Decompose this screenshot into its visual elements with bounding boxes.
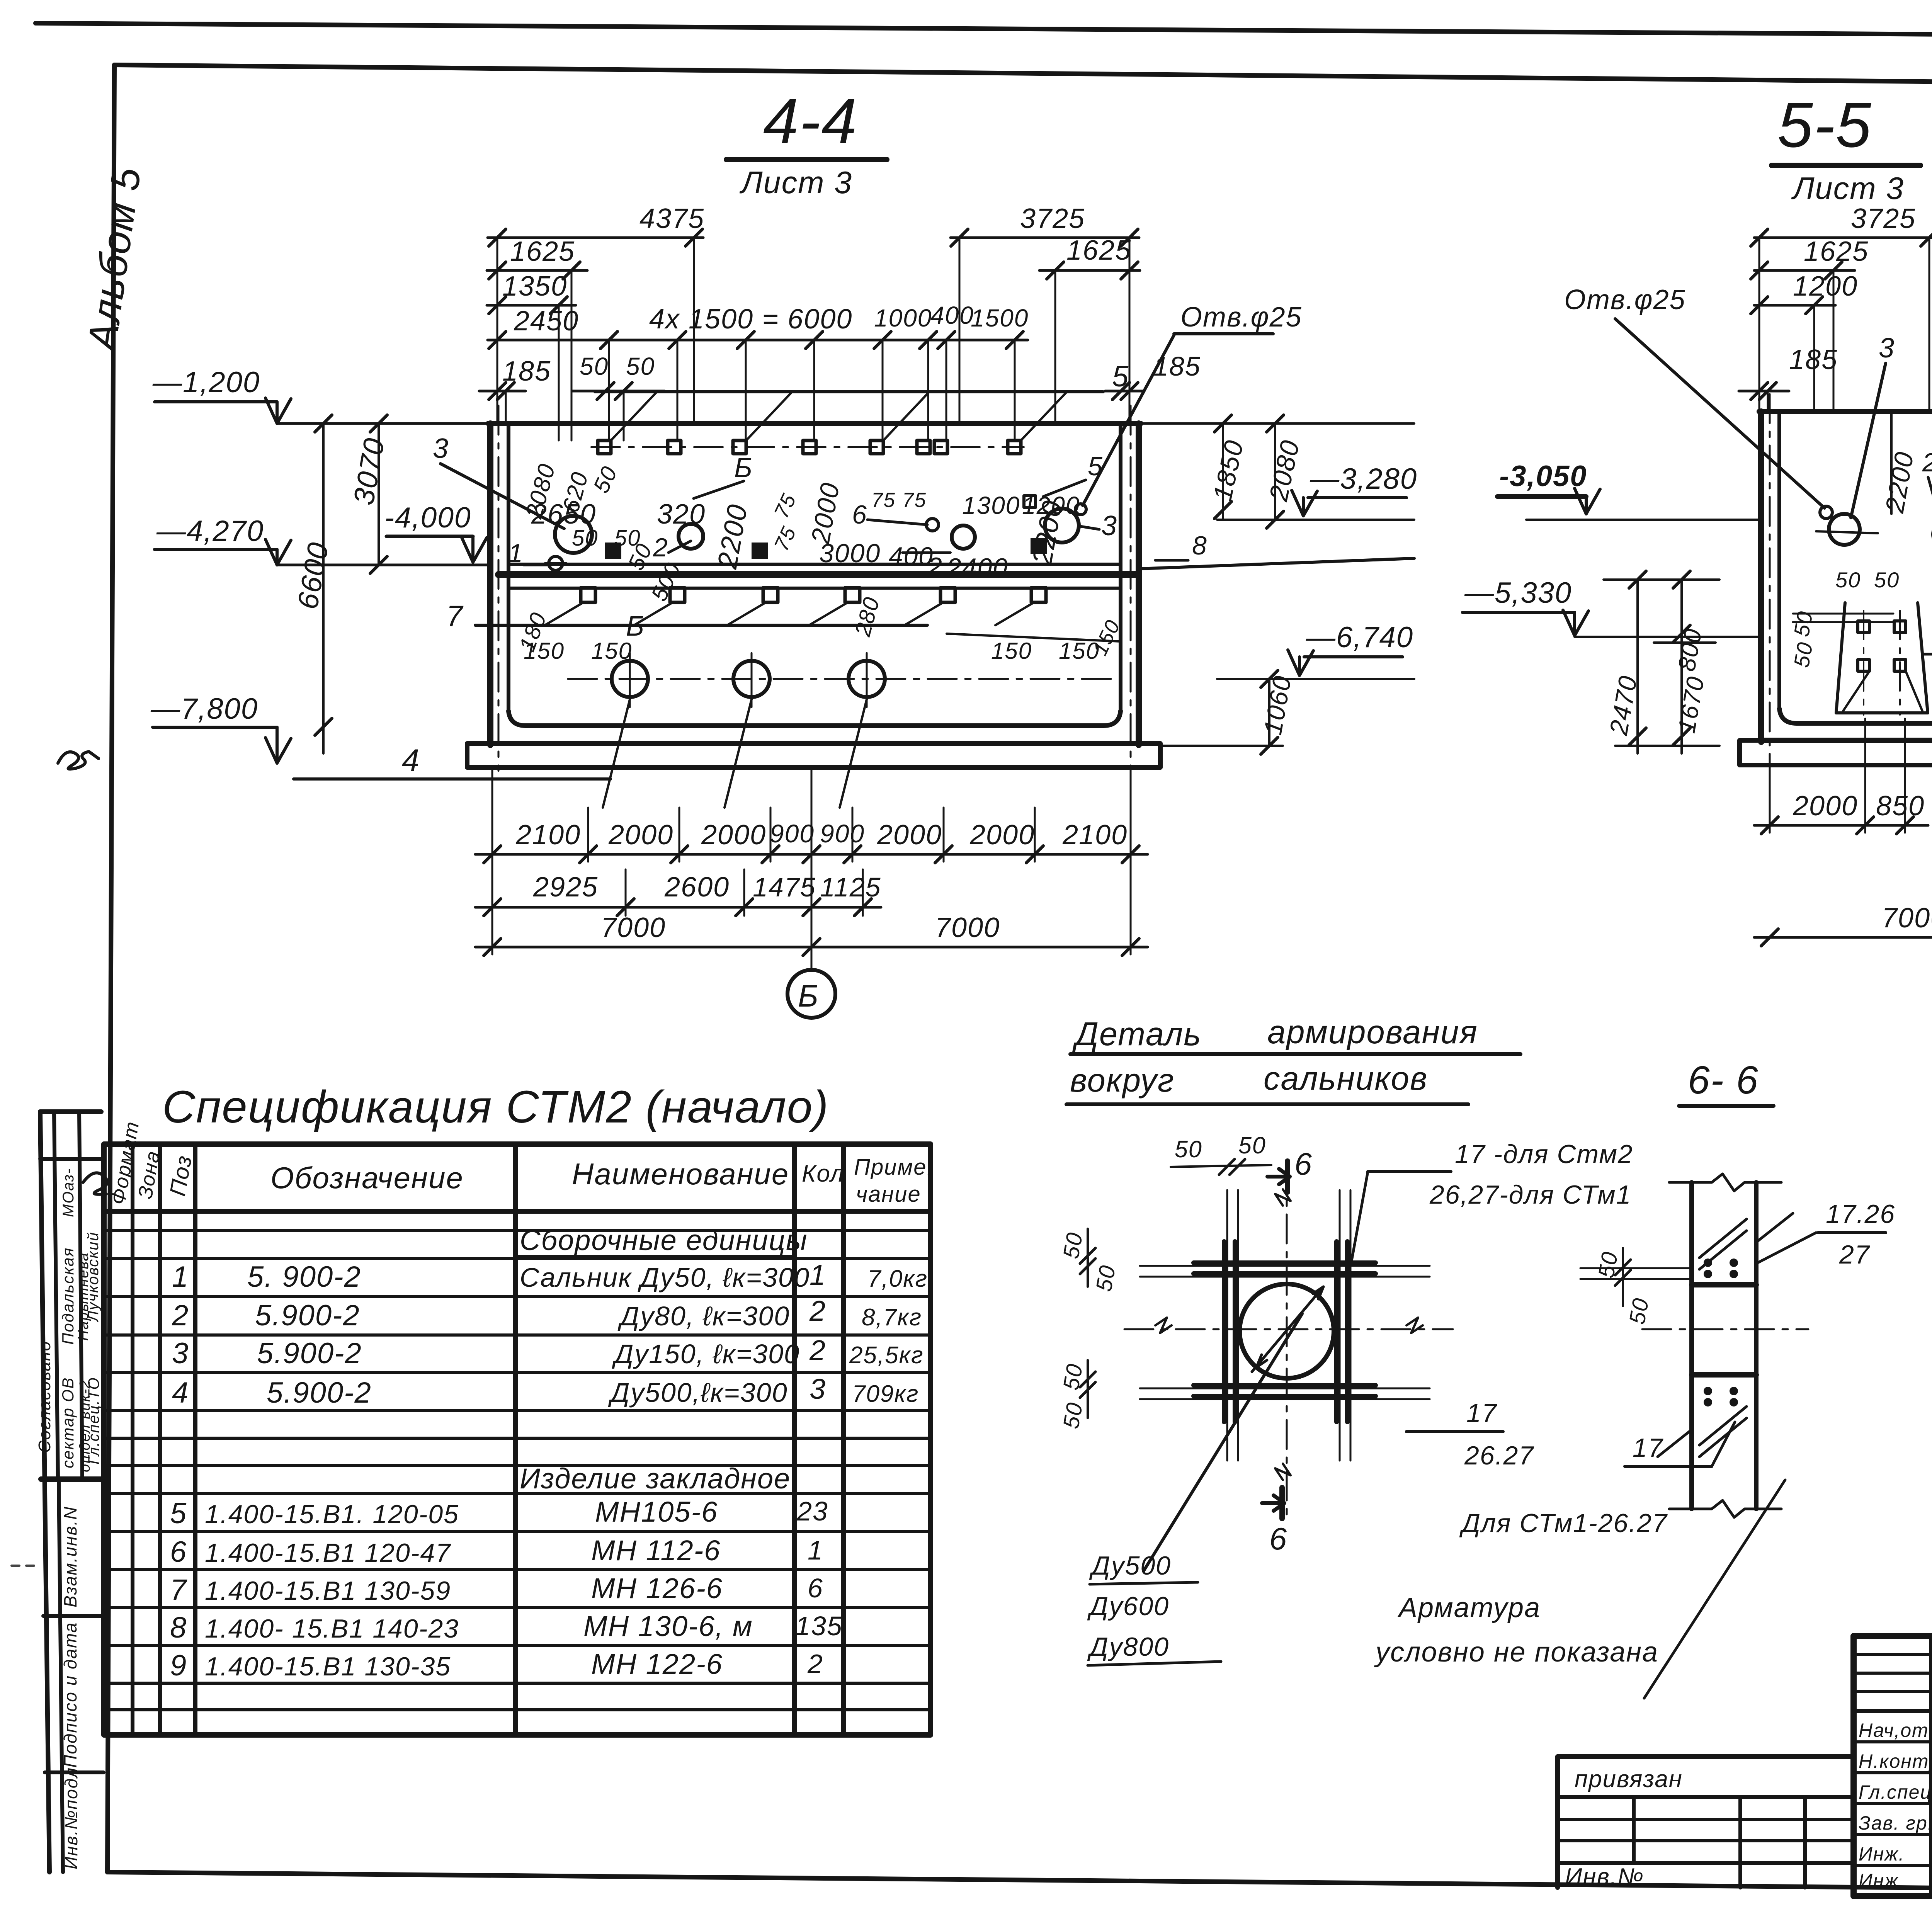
5-5 item leaders — [1851, 333, 1932, 556]
svg-text:50: 50 — [1874, 568, 1900, 592]
svg-text:50: 50 — [588, 462, 622, 497]
4-4 hole label Отв.ф25 right — [1083, 302, 1302, 505]
svg-text:3: 3 — [1879, 333, 1895, 364]
svg-text:чание: чание — [856, 1182, 921, 1207]
svg-text:Отв.φ25: Отв.φ25 — [1180, 302, 1302, 333]
svg-text:-4,000: -4,000 — [384, 501, 471, 534]
svg-text:2: 2 — [172, 1299, 189, 1332]
svg-text:1.400-15.В1 120-47: 1.400-15.В1 120-47 — [205, 1538, 451, 1568]
svg-text:2080: 2080 — [1264, 437, 1305, 504]
section 6-6 title — [1679, 1058, 1774, 1106]
5-5 bottom dims 7000 7000 — [1754, 769, 1932, 978]
svg-text:2: 2 — [807, 1649, 823, 1679]
svg-text:2400: 2400 — [946, 553, 1008, 582]
svg-text:1300: 1300 — [962, 492, 1020, 519]
svg-text:2450: 2450 — [514, 306, 579, 337]
4-4 gallery floor slab — [498, 564, 1139, 588]
svg-text:7: 7 — [446, 600, 464, 633]
stray pen marks bottom — [12, 1566, 1406, 1932]
5-5 dimension row 1625 /1625 — [1751, 235, 1932, 279]
svg-text:1.400-15.В1 130-35: 1.400-15.В1 130-35 — [205, 1652, 451, 1681]
svg-text:50: 50 — [1058, 1400, 1088, 1430]
armature note — [1374, 1480, 1785, 1698]
title block outer — [1854, 1636, 1932, 1896]
svg-text:50: 50 — [1594, 1249, 1623, 1280]
svg-text:1.400-15.В1. 120-05: 1.400-15.В1. 120-05 — [205, 1500, 459, 1529]
svg-text:50: 50 — [1789, 640, 1818, 669]
4-4 left level mark -1,200 — [152, 366, 488, 423]
svg-text:3: 3 — [172, 1337, 189, 1370]
svg-text:МН 122-6: МН 122-6 — [591, 1648, 723, 1680]
svg-text:армирования: армирования — [1267, 1014, 1478, 1051]
svg-text:1: 1 — [810, 1259, 826, 1291]
svg-text:3: 3 — [1101, 510, 1117, 541]
5-5 left level -3,050 — [1497, 460, 1761, 520]
svg-text:1: 1 — [172, 1260, 189, 1293]
svg-text:26.27: 26.27 — [1464, 1441, 1534, 1470]
svg-text:Нач,отд: Нач,отд — [1859, 1719, 1932, 1741]
svg-text:3000: 3000 — [819, 539, 881, 568]
svg-text:17.26: 17.26 — [1826, 1199, 1895, 1229]
svg-text:Подальская: Подальская — [59, 1247, 77, 1345]
left detail 50 50 dims — [1058, 1132, 1271, 1430]
svg-text:1.400-15.В1 130-59: 1.400-15.В1 130-59 — [205, 1576, 451, 1605]
5-5 dimension row 185 / 185 — [1739, 344, 1932, 400]
svg-text:МН 112-6: МН 112-6 — [591, 1534, 721, 1566]
svg-text:Б: Б — [734, 452, 753, 483]
4-4 dimension row 185 and 50 50 — [479, 351, 1201, 400]
spec table grid — [104, 1144, 930, 1735]
5-5 dimension 6x1500=9000 / 1000 — [1924, 621, 1932, 663]
svg-text:50: 50 — [1058, 1230, 1088, 1260]
5-5 top extension verticals — [1759, 238, 1932, 502]
svg-text:2: 2 — [809, 1334, 826, 1366]
4-4 section cut line 4 — [294, 743, 611, 779]
svg-text:50: 50 — [1238, 1132, 1266, 1158]
signature squiggle left margin — [58, 752, 99, 769]
4-4 reference circle Б — [787, 970, 835, 1018]
svg-text:Приме.: Приме. — [854, 1155, 934, 1180]
svg-text:50: 50 — [626, 352, 655, 380]
svg-text:3725: 3725 — [1851, 203, 1916, 234]
svg-text:2000: 2000 — [608, 820, 673, 850]
svg-text:3: 3 — [433, 433, 449, 464]
5-5 left dims 2470 1670 800 — [1604, 571, 1719, 753]
section 5-5 title — [1772, 89, 1920, 206]
5-5 inner dims 2200 1850 2200 700 2400 1770 200 2080 2800 — [1880, 374, 1932, 581]
svg-text:1850: 1850 — [1207, 437, 1249, 504]
5-5 bottom dims 2000 850 — [1754, 719, 1928, 834]
4-4 vertical dims 3070 / 6600 — [291, 415, 391, 753]
svg-text:2: 2 — [653, 533, 668, 562]
svg-text:6: 6 — [852, 500, 867, 529]
svg-text:900: 900 — [770, 819, 815, 848]
svg-text:Инж: Инж — [1859, 1870, 1899, 1891]
svg-text:Подписо и дата: Подписо и дата — [60, 1622, 80, 1768]
note label 17.26/27 left of it — [0, 0, 0, 0]
svg-text:6600: 6600 — [291, 539, 335, 612]
4-4 top dimension row 4375 / 3725 — [488, 203, 1139, 246]
svg-text:Обозначение: Обозначение — [270, 1161, 464, 1195]
svg-text:6: 6 — [1294, 1147, 1313, 1182]
svg-text:185: 185 — [502, 356, 551, 387]
svg-text:2: 2 — [809, 1295, 826, 1327]
svg-text:5-5: 5-5 — [1777, 89, 1872, 160]
5-5 tank outline walls — [1759, 394, 1932, 769]
svg-text:2000: 2000 — [877, 820, 942, 850]
4-4 right level -6,740 with dim 1060 — [1159, 621, 1414, 754]
svg-text:50: 50 — [1058, 1361, 1088, 1392]
svg-text:Ду800: Ду800 — [1087, 1632, 1169, 1662]
svg-text:75: 75 — [871, 489, 896, 512]
svg-text:50: 50 — [1624, 1296, 1654, 1326]
svg-text:Гл.спец.ТО: Гл.спец.ТО — [85, 1377, 102, 1464]
svg-text:6: 6 — [170, 1536, 187, 1568]
4-4 left level mark -4,270 — [155, 515, 490, 565]
svg-text:Альбом 5: Альбом 5 — [79, 164, 150, 355]
svg-text:75: 75 — [902, 489, 927, 512]
svg-text:17: 17 — [1633, 1433, 1663, 1463]
svg-text:150: 150 — [991, 638, 1032, 664]
svg-text:2000: 2000 — [969, 820, 1035, 850]
spec table header texts — [107, 1119, 934, 1207]
svg-text:17 -для Стм2: 17 -для Стм2 — [1455, 1139, 1633, 1169]
svg-text:5. 900-2: 5. 900-2 — [247, 1260, 361, 1293]
5-5 tank bottom and base slab — [1740, 709, 1932, 765]
5-5 sump funnel with plates — [1836, 603, 1932, 718]
svg-text:400: 400 — [930, 301, 974, 329]
svg-text:150: 150 — [591, 638, 632, 664]
svg-text:8,7кг: 8,7кг — [862, 1304, 922, 1331]
svg-text:5.900-2: 5.900-2 — [267, 1376, 372, 1409]
svg-text:7000: 7000 — [935, 912, 1000, 943]
left detail leader 17-для Стм2 / 26,27-для СТм1 — [1351, 1139, 1633, 1263]
svg-text:50: 50 — [1835, 568, 1861, 592]
svg-text:185: 185 — [1153, 351, 1201, 381]
detail title — [1066, 1014, 1520, 1104]
svg-text:5.900-2: 5.900-2 — [257, 1337, 362, 1370]
svg-text:Сальник Ду50, ℓк=300: Сальник Ду50, ℓк=300 — [520, 1262, 810, 1293]
svg-text:2000: 2000 — [806, 480, 845, 546]
svg-text:27: 27 — [1839, 1240, 1870, 1269]
svg-text:5: 5 — [170, 1497, 187, 1530]
4-4 dimension extension verticals (top) — [497, 238, 1129, 440]
svg-text:709кг: 709кг — [852, 1381, 919, 1407]
svg-text:Ду150, ℓк=300: Ду150, ℓк=300 — [612, 1339, 800, 1369]
left detail thin extension lines — [1124, 1163, 1453, 1522]
privyazan box — [1558, 1757, 1854, 1890]
svg-text:3070: 3070 — [347, 435, 391, 507]
4-4 right level -3,280 with dims 1850 2080 — [1141, 415, 1417, 528]
svg-text:привязан: привязан — [1575, 1766, 1683, 1793]
5-5 top dimension row 3725 675 4375 — [1751, 195, 1932, 246]
left stamp rotated labels — [35, 1168, 107, 1869]
svg-text:4: 4 — [172, 1376, 189, 1409]
svg-text:1.400- 15.В1 140-23: 1.400- 15.В1 140-23 — [205, 1614, 459, 1643]
4-4 bottom dimension row 2925 2600 1475 1125 — [475, 872, 881, 916]
svg-text:Б: Б — [626, 611, 645, 642]
4-4 bottom dimension row 2100..2100 — [475, 819, 1148, 863]
svg-text:5.900-2: 5.900-2 — [255, 1299, 360, 1332]
svg-text:50: 50 — [1091, 1263, 1121, 1293]
svg-text:—5,330: —5,330 — [1464, 577, 1572, 609]
4-4 interior dimension texts — [514, 461, 1125, 664]
svg-text:7000: 7000 — [601, 912, 666, 943]
svg-text:—3,280: —3,280 — [1310, 463, 1417, 495]
svg-text:вокруг: вокруг — [1070, 1062, 1175, 1099]
svg-text:6: 6 — [808, 1573, 823, 1603]
svg-text:5: 5 — [1112, 360, 1129, 393]
svg-text:75: 75 — [770, 523, 801, 554]
sheet outer top edge line — [36, 23, 1932, 39]
4-4 bottom openings (3 circles) — [568, 653, 1117, 707]
5-5 dimension row 1200 / 1350 — [1751, 271, 1932, 314]
svg-text:2100: 2100 — [1062, 820, 1128, 850]
5-5 hole labels — [1564, 284, 1932, 508]
svg-text:Поз: Поз — [165, 1153, 197, 1198]
svg-text:2200: 2200 — [1880, 449, 1920, 515]
svg-text:1625: 1625 — [510, 236, 575, 267]
svg-text:сектар ОВ: сектар ОВ — [59, 1377, 77, 1468]
4-4 upper embedded plates row — [591, 440, 1024, 454]
left detail pipe diameter labels — [1087, 1314, 1302, 1665]
svg-text:26,27-для СТм1: 26,27-для СТм1 — [1429, 1180, 1632, 1209]
svg-text:4: 4 — [402, 743, 420, 778]
svg-text:2650: 2650 — [531, 499, 596, 530]
4-4 bottom extension verticals — [492, 699, 1131, 970]
left detail: rebar around gland, plan — [1194, 1242, 1376, 1422]
svg-text:7000: 7000 — [1882, 903, 1932, 934]
svg-text:1200: 1200 — [1793, 271, 1858, 302]
4-4 shaded (welded) plates — [605, 538, 1047, 559]
svg-text:Согласовано: Согласовано — [35, 1341, 54, 1453]
5-5 gland circles — [1816, 505, 1932, 565]
svg-text:Лист 3: Лист 3 — [739, 165, 852, 200]
4-4 dimension row 1625 / 1625 — [487, 235, 1140, 279]
svg-text:150: 150 — [524, 638, 565, 664]
svg-text:850: 850 — [1876, 791, 1925, 821]
svg-text:Для СТм1-26.27: Для СТм1-26.27 — [1459, 1509, 1668, 1538]
svg-text:—1,200: —1,200 — [152, 366, 260, 399]
4-4 tank bottom and base slab — [467, 711, 1160, 767]
svg-text:8: 8 — [1192, 531, 1207, 560]
svg-text:1670: 1670 — [1673, 674, 1710, 735]
4-4 lower embedded plates row — [581, 588, 1046, 602]
svg-text:Ду500: Ду500 — [1089, 1551, 1171, 1580]
svg-text:50: 50 — [1175, 1136, 1202, 1162]
svg-text:Ду500,ℓк=300: Ду500,ℓк=300 — [608, 1378, 788, 1408]
svg-text:МН 130-6, м: МН 130-6, м — [583, 1610, 753, 1642]
svg-text:Лист 3: Лист 3 — [1791, 171, 1904, 206]
svg-text:Отв.φ25: Отв.φ25 — [1564, 284, 1686, 315]
svg-text:2925: 2925 — [533, 872, 598, 903]
svg-text:Сборочные единицы: Сборочные единицы — [520, 1224, 808, 1256]
svg-text:Изделие закладное: Изделие закладное — [520, 1463, 791, 1495]
svg-text:Гл.спец.: Гл.спец. — [1859, 1781, 1932, 1803]
svg-text:1475: 1475 — [753, 872, 816, 902]
svg-text:75: 75 — [770, 490, 801, 522]
svg-text:6: 6 — [1269, 1522, 1287, 1556]
svg-text:50: 50 — [572, 526, 599, 551]
svg-text:Деталь: Деталь — [1072, 1016, 1202, 1053]
svg-text:Наименование: Наименование — [572, 1157, 789, 1191]
svg-text:МОаз-: МОаз- — [60, 1168, 77, 1217]
svg-text:МН 126-6: МН 126-6 — [591, 1572, 723, 1604]
svg-text:Кол: Кол — [802, 1160, 845, 1187]
svg-text:1625: 1625 — [1066, 235, 1131, 266]
svg-text:17: 17 — [1466, 1398, 1497, 1428]
4-4 dimension row 2450 / 4x1500=6000 / 1000 400 1500 — [488, 301, 1029, 349]
svg-text:9: 9 — [170, 1649, 187, 1682]
svg-text:4375: 4375 — [639, 203, 704, 234]
svg-text:400: 400 — [889, 542, 934, 570]
svg-text:Инв.№подл: Инв.№подл — [61, 1767, 81, 1869]
svg-text:Зав. гр.: Зав. гр. — [1859, 1812, 1932, 1834]
svg-text:5: 5 — [1088, 452, 1103, 481]
svg-text:—4,270: —4,270 — [156, 515, 264, 548]
svg-text:Б: Б — [798, 979, 819, 1014]
section 4-4 title — [726, 85, 887, 200]
4-4 bottom dimension row 7000 7000 — [475, 912, 1148, 956]
right detail labels 17.26/27 and 17 — [1625, 1199, 1895, 1466]
svg-text:Арматура: Арматура — [1397, 1592, 1541, 1623]
5-5 left level -5,330 — [1463, 577, 1761, 637]
svg-text:Инв.№: Инв.№ — [1565, 1864, 1644, 1890]
svg-text:МН105-6: МН105-6 — [595, 1496, 718, 1528]
spec table rows — [170, 1224, 928, 1682]
svg-text:1000: 1000 — [874, 304, 932, 332]
svg-text:1125: 1125 — [820, 872, 881, 902]
svg-text:Инж.: Инж. — [1859, 1843, 1905, 1865]
svg-text:—6,740: —6,740 — [1306, 621, 1413, 654]
svg-text:1625: 1625 — [1804, 236, 1869, 267]
svg-text:сальников: сальников — [1264, 1060, 1428, 1097]
4-4 leader line label 5 for upper plates — [595, 360, 1129, 440]
svg-text:Ду600: Ду600 — [1087, 1592, 1169, 1621]
svg-text:800: 800 — [1673, 626, 1707, 673]
svg-text:4х 1500 = 6000: 4х 1500 = 6000 — [649, 304, 852, 335]
svg-text:8: 8 — [170, 1611, 187, 1644]
4-4 level -4,000 — [384, 501, 487, 562]
svg-text:7,0кг: 7,0кг — [867, 1265, 928, 1292]
svg-text:—7,800: —7,800 — [150, 692, 258, 725]
left stamp column boxes — [40, 1112, 104, 1872]
svg-text:320: 320 — [657, 499, 706, 530]
4-4 gland seals (circles) — [545, 504, 1086, 570]
4-4 item leaders and numbers — [433, 433, 1414, 642]
svg-text:2200: 2200 — [712, 502, 753, 571]
svg-text:1500: 1500 — [971, 304, 1029, 332]
svg-text:1350: 1350 — [502, 271, 567, 302]
svg-text:900: 900 — [820, 819, 865, 848]
svg-text:Спецификация СТМ2 (начало): Спецификация СТМ2 (начало) — [162, 1082, 829, 1133]
svg-text:Взам.инв.N: Взам.инв.N — [60, 1506, 80, 1607]
svg-text:2600: 2600 — [664, 872, 730, 903]
4-4 dimension row 1350 — [487, 271, 576, 314]
svg-text:3: 3 — [810, 1373, 826, 1405]
4-4 leader line label 7 for lower plates — [446, 600, 1034, 633]
left detail label 17 / 26.27 — [1406, 1398, 1668, 1538]
right detail 50 50 dims — [1580, 1248, 1692, 1326]
svg-text:условно не показана: условно не показана — [1374, 1637, 1658, 1668]
svg-text:2000: 2000 — [1793, 791, 1858, 821]
svg-text:Н.контр: Н.контр — [1859, 1750, 1932, 1772]
svg-text:7: 7 — [170, 1573, 187, 1606]
svg-text:1: 1 — [808, 1535, 823, 1565]
svg-text:Лучковский: Лучковский — [85, 1231, 102, 1323]
svg-text:2100: 2100 — [515, 820, 581, 850]
title block signature rows — [1859, 1719, 1932, 1891]
right detail 6-6 wall section — [1642, 1174, 1808, 1517]
4-4 tank outline walls — [488, 406, 1141, 771]
left detail section cut marks 6 — [1262, 1147, 1313, 1556]
svg-text:Ду80, ℓк=300: Ду80, ℓк=300 — [617, 1301, 790, 1331]
svg-text:50: 50 — [580, 352, 609, 380]
svg-text:2: 2 — [1922, 448, 1932, 477]
svg-text:6- 6: 6- 6 — [1688, 1058, 1759, 1102]
svg-text:1: 1 — [508, 539, 524, 568]
svg-text:23: 23 — [796, 1496, 828, 1526]
svg-text:25,5кг: 25,5кг — [849, 1342, 924, 1369]
svg-text:2000: 2000 — [701, 820, 766, 850]
5-5 wall 50 50 labels — [1789, 507, 1932, 669]
svg-text:135: 135 — [795, 1611, 843, 1641]
4-4 left level mark -7,800 — [150, 692, 291, 763]
svg-text:3725: 3725 — [1020, 203, 1085, 234]
svg-text:4-4: 4-4 — [763, 85, 857, 156]
